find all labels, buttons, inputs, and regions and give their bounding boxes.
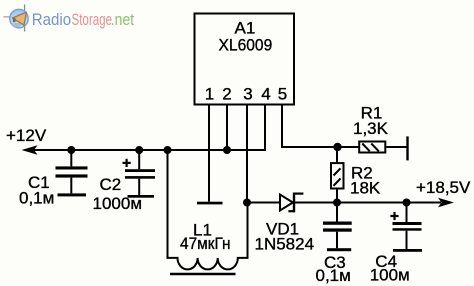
svg-text:C2: C2 <box>100 175 122 194</box>
capacitor C4 bottom wire <box>406 231 408 249</box>
svg-text:18K: 18K <box>350 179 381 198</box>
svg-text:XL6009: XL6009 <box>219 36 273 55</box>
resistor R2 slashes <box>334 168 341 175</box>
diode VD1 triangle <box>280 195 293 211</box>
capacitor C2 bottom wire <box>138 179 140 195</box>
svg-text:0,1м: 0,1м <box>316 266 351 285</box>
svg-text:0,1м: 0,1м <box>19 189 54 208</box>
node dot pin3 <box>243 199 251 207</box>
resistor R1 body <box>359 142 385 153</box>
resistor R1 right lead <box>386 146 406 148</box>
capacitor C4 top wire <box>406 203 408 223</box>
inductor L1 outline <box>168 150 248 269</box>
svg-text:1: 1 <box>205 85 214 104</box>
node dot C2 <box>135 146 143 154</box>
ground bar C2 <box>128 195 155 198</box>
ground bar C3 <box>327 248 351 251</box>
R1 terminal bar <box>406 136 408 160</box>
svg-text:Storage: Storage <box>72 11 113 29</box>
resistor R1 slashes <box>362 144 370 152</box>
+12V arrowhead <box>22 145 38 155</box>
svg-text:1N5824: 1N5824 <box>255 235 315 254</box>
+12V rail wire <box>33 149 266 151</box>
capacitor C2 top wire <box>138 150 140 169</box>
logo icon dark blob <box>13 18 16 22</box>
capacitor C1 bottom wire <box>70 178 72 194</box>
wire pin2 <box>226 106 228 152</box>
capacitor C3 top wire <box>336 203 338 222</box>
logo icon orange triangle <box>12 12 26 25</box>
capacitor C2 plates <box>125 169 155 172</box>
ground bar pin1 <box>197 202 223 205</box>
svg-text:5: 5 <box>278 85 287 104</box>
ground bar C4 <box>393 249 422 252</box>
svg-text:+12V: +12V <box>6 126 47 145</box>
C2 plus sign <box>123 162 131 164</box>
capacitor C1 top wire <box>70 150 72 166</box>
node dot C1 <box>67 146 75 154</box>
node dot L1 <box>164 146 172 154</box>
svg-text:Radio: Radio <box>32 11 71 29</box>
wire node to diode <box>247 202 280 204</box>
C4 plus sign <box>390 215 398 217</box>
wire pin3 <box>246 106 248 204</box>
capacitor C1 plates <box>56 166 88 169</box>
logo icon circle <box>10 9 28 27</box>
resistor R2 top lead <box>336 147 338 163</box>
ground bar C1 <box>58 193 87 196</box>
svg-text:2: 2 <box>222 85 231 104</box>
wire pin1 to ground <box>208 106 210 202</box>
node dot C3 <box>333 199 341 207</box>
wire pin5 to R1 <box>282 106 359 148</box>
diode VD1 top hook <box>294 193 303 195</box>
svg-text:1,3K: 1,3K <box>353 119 389 138</box>
capacitor C4 plates <box>393 222 422 225</box>
svg-text:100м: 100м <box>370 266 410 285</box>
resistor R2 bottom lead <box>336 189 338 203</box>
wire pin4 <box>264 106 266 152</box>
node dot C4 <box>403 199 411 207</box>
diode VD1 bottom hook <box>288 210 295 212</box>
resistor R2 body <box>331 163 344 188</box>
capacitor C3 bottom wire <box>336 232 338 249</box>
svg-text:+18,5V: +18,5V <box>416 178 471 197</box>
svg-text:.net: .net <box>111 11 135 29</box>
+18,5V arrowhead <box>438 198 454 208</box>
logo icon vertical line <box>24 5 26 32</box>
svg-text:3: 3 <box>243 85 252 104</box>
IC A1 box <box>195 14 295 105</box>
diode VD1 cathode bar <box>293 193 295 213</box>
svg-text:1000м: 1000м <box>93 194 143 213</box>
node dot R1/R2 <box>333 143 341 151</box>
node dot pin2 <box>223 146 231 154</box>
logo icon left lead <box>4 16 12 18</box>
inductor L1 core <box>170 273 236 276</box>
logo icon teal blob <box>12 23 22 27</box>
capacitor C3 plates <box>323 222 352 225</box>
svg-text:4: 4 <box>261 85 270 104</box>
svg-text:47мкГн: 47мкГн <box>180 234 231 253</box>
output rail wire <box>294 202 441 204</box>
